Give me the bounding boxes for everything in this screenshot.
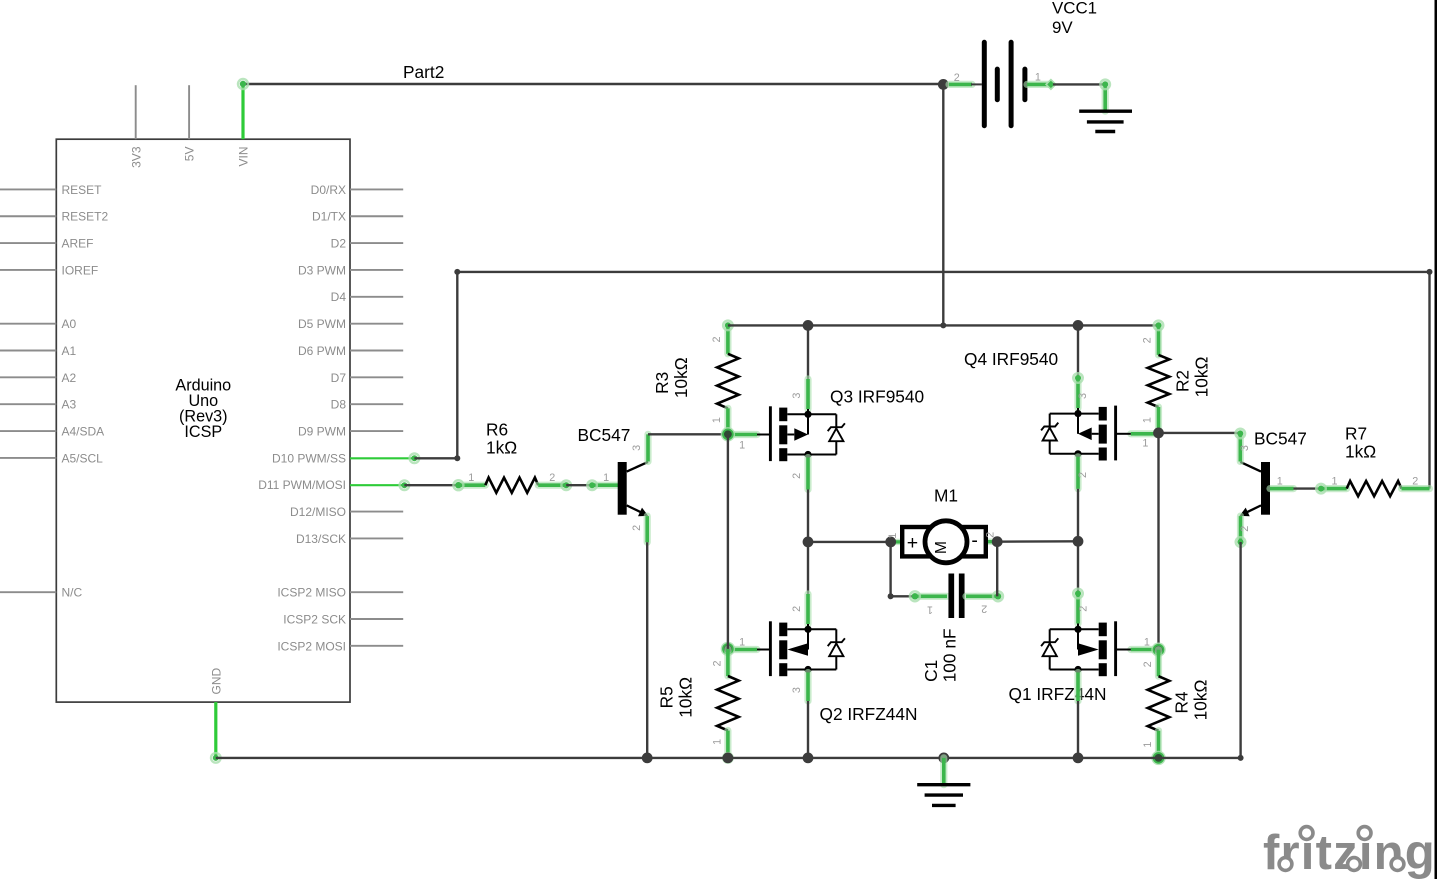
svg-text:M: M (933, 541, 950, 554)
svg-text:2: 2 (549, 472, 555, 484)
pin D6 PWM (right) (350, 350, 403, 352)
svg-text:3: 3 (791, 393, 803, 399)
Q3 gate pin 1 (730, 431, 758, 438)
svg-text:1: 1 (603, 472, 609, 484)
svg-text:1: 1 (1142, 417, 1154, 423)
svg-text:1: 1 (1144, 636, 1150, 648)
BC547-R base pin 1 / R7 (1270, 485, 1294, 492)
svg-text:RESET: RESET (62, 183, 103, 197)
svg-text:A5/SCL: A5/SCL (62, 451, 104, 465)
junction rail / Q1 source (1073, 753, 1084, 764)
pin AREF (left) (0, 242, 56, 244)
resistor R5 10k (724, 649, 731, 676)
junction motor pin2 (992, 536, 1003, 547)
svg-text:2: 2 (711, 336, 723, 342)
svg-text:2: 2 (954, 72, 960, 84)
svg-text:A4/SDA: A4/SDA (62, 424, 105, 438)
IC U-Arduino Uno (Rev3) ICSP body (56, 139, 350, 702)
Q2 gate pin 1 (730, 646, 758, 653)
wire Part2: VIN up (243, 83, 943, 85)
svg-text:2: 2 (1239, 526, 1251, 532)
svg-text:10kΩ: 10kΩ (1191, 680, 1211, 721)
wire ground rail (216, 757, 1241, 759)
wire long top rail y=272 (457, 271, 1429, 273)
svg-text:ICSP2 MISO: ICSP2 MISO (277, 586, 346, 600)
transistor Q BC547 (left) (618, 462, 627, 515)
svg-text:RESET2: RESET2 (62, 210, 109, 224)
svg-text:2: 2 (712, 660, 724, 666)
svg-text:1: 1 (468, 472, 474, 484)
transistor Q4 IRF9540 (P-MOSFET, mirrored) (1114, 406, 1117, 461)
svg-text:Q1 IRFZ44N: Q1 IRFZ44N (1009, 684, 1107, 704)
svg-text:GND: GND (209, 668, 223, 695)
pin 3V3 (135, 85, 137, 139)
pin ICSP2 MOSI (right) (350, 645, 403, 647)
Q4 gate pin 1 (1131, 430, 1157, 437)
svg-text:D9 PWM: D9 PWM (298, 424, 346, 438)
junction R5/Q2gate (721, 642, 735, 656)
resistor R3 10k (724, 325, 731, 353)
svg-text:3: 3 (631, 445, 643, 451)
wire Q3 source to motor (808, 541, 891, 543)
wire right edge down to R7 (1428, 272, 1430, 489)
svg-text:VCC1: VCC1 (1052, 0, 1097, 17)
svg-text:5V: 5V (183, 147, 197, 162)
svg-text:2: 2 (631, 525, 643, 531)
svg-text:D12/MISO: D12/MISO (290, 505, 346, 519)
wire top rail to Q3 drain (807, 325, 809, 379)
svg-text:2: 2 (981, 603, 987, 615)
pin D9 PWM (right) (350, 430, 403, 432)
pin ICSP2 SCK (right) (350, 618, 403, 620)
pin A1 (left) (0, 350, 56, 352)
svg-text:Part2: Part2 (403, 62, 444, 82)
svg-text:2: 2 (1142, 337, 1154, 343)
BC547-L emitter pin 2 (644, 516, 651, 542)
svg-text:3: 3 (791, 687, 803, 693)
canvas right border (1435, 0, 1437, 879)
junction R4 bottom on rail (1151, 751, 1165, 765)
wire R2 junction down to Q1 gate junction (1157, 433, 1159, 650)
pin RESET (left) (0, 188, 56, 190)
junction top rail / Q4 (1073, 320, 1084, 331)
pin D5 PWM (right) (350, 323, 403, 325)
svg-text:R2: R2 (1173, 370, 1193, 392)
svg-text:1: 1 (711, 417, 723, 423)
svg-text:100 nF: 100 nF (940, 628, 960, 682)
transistor Q2 IRFZ44N (N-MOSFET) (769, 621, 772, 676)
junction R2/Q4gate/BC547R (1159, 432, 1241, 434)
wire BC547-L collector to R3/Q3gate junction (648, 433, 728, 435)
wire battery junction down to H-bridge top rail (942, 84, 944, 325)
ground (battery negative) (1079, 109, 1132, 112)
svg-text:R3: R3 (652, 372, 672, 394)
pin D4 (right) (350, 296, 403, 298)
svg-text:D10 PWM/SS: D10 PWM/SS (272, 451, 346, 465)
svg-text:N/C: N/C (62, 586, 83, 600)
svg-text:1: 1 (887, 533, 899, 539)
pin D13/SCK (right) (350, 537, 403, 539)
svg-text:2: 2 (1142, 661, 1154, 667)
battery VCC1 9V (949, 81, 972, 88)
wire R6 to BC547 base (566, 484, 592, 486)
wire GND pin down (214, 702, 217, 758)
svg-text:D4: D4 (331, 290, 347, 304)
pin A4/SDA (left) (0, 430, 56, 432)
junction rail / Q2 source (803, 753, 814, 764)
svg-text:10kΩ: 10kΩ (671, 357, 691, 398)
svg-text:3V3: 3V3 (129, 146, 143, 168)
svg-text:BC547: BC547 (1254, 429, 1307, 449)
transistor Q3 IRF9540 (P-MOSFET) (769, 406, 772, 461)
svg-text:BC547: BC547 (578, 425, 631, 445)
pin D12/MISO (right) (350, 511, 403, 513)
ground symbol (bottom) (940, 758, 947, 785)
svg-text:ICSP: ICSP (184, 423, 222, 441)
wire riser at x=457 (456, 272, 458, 458)
svg-text:1: 1 (739, 636, 745, 648)
wire D11 to R6 (350, 484, 404, 486)
pin D2 (right) (350, 242, 403, 244)
pin D1/TX (right) (350, 215, 403, 217)
pin D0/RX (right) (350, 188, 403, 190)
svg-text:Q2 IRFZ44N: Q2 IRFZ44N (820, 704, 918, 724)
wire motor pin1 down to C1 (889, 542, 891, 596)
BC547-L collector pin 3 (644, 434, 651, 461)
svg-text:2: 2 (791, 606, 803, 612)
BC547-R collector pin 3 (1237, 434, 1244, 462)
svg-text:Q4 IRF9540: Q4 IRF9540 (964, 349, 1058, 369)
Q1 gate pin 1 (1131, 646, 1157, 653)
wire motor to Q4/Q1 column (997, 540, 1078, 543)
pin VIN (green highlighted) (241, 84, 244, 139)
transistor Q BC547 (right) (1261, 462, 1270, 515)
svg-text:3: 3 (1077, 393, 1089, 399)
svg-text:R5: R5 (656, 686, 676, 708)
svg-text:+: + (907, 532, 918, 554)
BC547-R emitter pin 2 (1237, 516, 1244, 542)
motor M1 (891, 539, 903, 545)
svg-text:2: 2 (1077, 472, 1089, 478)
svg-text:R4: R4 (1172, 691, 1192, 713)
wire motor rail down to Q1 drain (1077, 541, 1079, 593)
junction R3/Q3gate/BC547L (721, 427, 735, 441)
junction rail / BC547-L emitter (642, 753, 653, 764)
svg-text:IOREF: IOREF (62, 263, 99, 277)
svg-text:A0: A0 (62, 317, 77, 331)
resistor R4 10k (1155, 650, 1162, 677)
Q1 source pin 3 down to ground rail (1074, 673, 1081, 702)
pin ICSP2 MISO (right) (350, 591, 403, 593)
svg-text:D3 PWM: D3 PWM (298, 263, 346, 277)
junction: Part2/battery (938, 79, 949, 90)
pin A2 (left) (0, 376, 56, 378)
svg-text:ICSP2 MOSI: ICSP2 MOSI (277, 639, 346, 653)
svg-text:10kΩ: 10kΩ (676, 677, 696, 718)
svg-text:9V: 9V (1052, 18, 1073, 37)
svg-text:D7: D7 (331, 371, 347, 385)
svg-text:VIN: VIN (237, 147, 251, 167)
svg-text:3: 3 (1239, 445, 1251, 451)
svg-text:10kΩ: 10kΩ (1191, 357, 1211, 398)
junction rail / ground symbol (938, 753, 949, 764)
svg-text:D8: D8 (331, 398, 347, 412)
svg-text:1: 1 (927, 603, 933, 615)
svg-text:-: - (971, 530, 978, 552)
svg-text:1: 1 (1142, 742, 1154, 748)
svg-text:D6 PWM: D6 PWM (298, 344, 346, 358)
pin IOREF (left) (0, 269, 56, 271)
svg-text:D5 PWM: D5 PWM (298, 317, 346, 331)
svg-text:M1: M1 (934, 486, 958, 506)
transistor Q1 IRFZ44N (N-MOSFET, mirrored) (1114, 621, 1117, 676)
capacitor C1 100nF (915, 593, 947, 600)
junction motor pin1 (885, 537, 896, 548)
svg-text:1kΩ: 1kΩ (1345, 442, 1376, 462)
wire C1 right up to motor pin2 (996, 542, 998, 597)
Q4 source pin 2 down to motor rail (1074, 457, 1081, 489)
wire BC547-R emitter down to rail corner (1239, 542, 1241, 758)
svg-text:D0/RX: D0/RX (311, 183, 346, 197)
svg-text:A2: A2 (62, 371, 77, 385)
pin RESET2 (left) (0, 215, 56, 217)
pin A3 (left) (0, 403, 56, 405)
resistor R2 10k (1155, 325, 1162, 355)
wire R3 junction down to R5 junction (727, 434, 729, 649)
Q3 source pin 2 down to motor rail (804, 458, 811, 490)
svg-text:Q3 IRF9540: Q3 IRF9540 (830, 386, 924, 406)
pin 5V (188, 85, 190, 139)
svg-text:1: 1 (1331, 475, 1337, 487)
wire top rail to Q4 drain (1077, 325, 1079, 378)
junction rail / R5 (723, 753, 734, 764)
svg-text:1: 1 (712, 739, 724, 745)
svg-text:A3: A3 (62, 398, 77, 412)
junction top rail / Q3 (803, 320, 814, 331)
svg-text:D1/TX: D1/TX (312, 210, 346, 224)
svg-text:ICSP2 SCK: ICSP2 SCK (283, 612, 346, 626)
svg-text:A1: A1 (62, 344, 77, 358)
svg-text:1: 1 (739, 440, 745, 452)
svg-text:D11 PWM/MOSI: D11 PWM/MOSI (258, 478, 346, 492)
svg-text:2: 2 (1412, 475, 1418, 487)
wire H-bridge top rail (728, 324, 1159, 326)
svg-text:1kΩ: 1kΩ (486, 437, 517, 457)
pin D3 PWM (right) (350, 269, 403, 271)
pin N/C (left) (0, 591, 56, 593)
wire D10 horizontal (350, 457, 414, 459)
svg-text:C1: C1 (921, 660, 941, 682)
pin A0 (left) (0, 323, 56, 325)
resistor R6 1k (458, 482, 485, 489)
junction R2column/Q1gate/R4 (1151, 643, 1165, 657)
svg-text:1: 1 (1277, 475, 1283, 487)
svg-text:D13/SCK: D13/SCK (296, 532, 346, 546)
wire battery pin1 to ground (1027, 81, 1051, 88)
svg-text:D2: D2 (331, 237, 347, 251)
svg-text:AREF: AREF (62, 237, 94, 251)
pin D7 (right) (350, 376, 403, 378)
resistor R7 1k (1321, 485, 1347, 492)
junction top rail / battery (940, 322, 946, 328)
Q2 source pin 3 down to ground rail (804, 673, 811, 702)
wire BC547-L emitter down to ground rail (646, 542, 648, 758)
pin D8 (right) (350, 403, 403, 405)
svg-text:1: 1 (1142, 437, 1148, 449)
svg-text:2: 2 (791, 473, 803, 479)
svg-text:2: 2 (1077, 606, 1089, 612)
pin A5/SCL (left) (0, 457, 56, 459)
wire motor rail down to Q2 drain (807, 542, 809, 594)
